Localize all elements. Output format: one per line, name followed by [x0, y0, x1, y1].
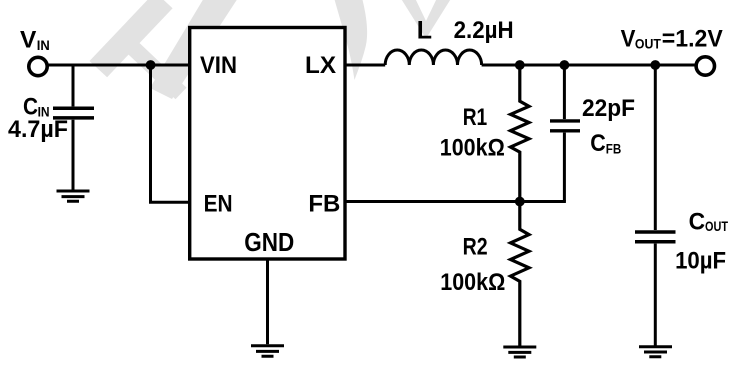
- capacitor CIN: [53, 108, 94, 118]
- svg-text:OUT: OUT: [635, 37, 662, 52]
- wire CIN branch: [72, 65, 75, 106]
- svg-text:C: C: [689, 208, 706, 235]
- svg-text:4.7µF: 4.7µF: [8, 116, 68, 143]
- ground COUT: [639, 347, 672, 357]
- pin VIN: [200, 52, 237, 79]
- svg-text:EN: EN: [204, 190, 233, 217]
- node VIN terminal: [29, 57, 47, 75]
- ground R2: [503, 347, 536, 357]
- svg-text:2.2µH: 2.2µH: [454, 17, 514, 44]
- pin LX: [305, 52, 337, 79]
- label VOUT=1.2V: [621, 25, 724, 52]
- inductor L1: [385, 50, 481, 65]
- label R1: [463, 104, 488, 131]
- svg-text:IN: IN: [37, 38, 50, 53]
- label CFB: [590, 130, 621, 157]
- watermark wedge V: [400, 0, 452, 39]
- wire input rail: [47, 64, 188, 67]
- svg-text:FB: FB: [606, 141, 622, 156]
- label R2 value 100k: [440, 269, 505, 296]
- wire COUT bottom: [654, 244, 657, 346]
- svg-text:V: V: [20, 27, 37, 54]
- pin EN: [204, 190, 233, 217]
- node COUT top junction: [650, 60, 660, 70]
- svg-text:22pF: 22pF: [582, 95, 635, 122]
- svg-text:C: C: [590, 130, 606, 157]
- wire CIN to ground: [72, 120, 75, 191]
- label R1 value 100k: [440, 135, 505, 162]
- svg-text:OUT: OUT: [705, 219, 729, 234]
- capacitor COUT: [635, 232, 676, 242]
- wire FB rail: [344, 200, 566, 203]
- wire output rail: [482, 64, 696, 67]
- svg-text:100kΩ: 100kΩ: [440, 269, 505, 296]
- label CIN: [23, 93, 50, 120]
- resistor R2: [511, 202, 530, 346]
- label COUT: [689, 208, 729, 235]
- pin GND: [244, 229, 294, 257]
- node EN junction: [146, 60, 156, 70]
- wire LX to inductor: [344, 64, 385, 67]
- node VOUT terminal: [696, 57, 714, 75]
- svg-text:FB: FB: [308, 190, 340, 217]
- svg-text:100kΩ: 100kΩ: [440, 135, 505, 162]
- wire GND pin: [266, 259, 269, 344]
- label CFB value 22pF: [582, 95, 635, 122]
- svg-text:GND: GND: [244, 229, 294, 257]
- svg-text:R1: R1: [463, 104, 488, 131]
- wire COUT top: [654, 65, 657, 230]
- label VIN terminal: [20, 27, 50, 54]
- label COUT value 10uF: [675, 248, 726, 275]
- pin FB: [308, 190, 340, 217]
- label CIN value 4.7uF: [8, 116, 68, 143]
- watermark arc O: [333, 0, 367, 80]
- svg-text:V: V: [621, 25, 636, 52]
- wire CFB top: [563, 65, 566, 119]
- svg-text:L: L: [417, 17, 432, 45]
- resistor R1: [511, 65, 530, 202]
- capacitor CFB: [550, 121, 580, 131]
- svg-text:R2: R2: [463, 234, 488, 261]
- ground IC: [251, 346, 284, 357]
- label L value 2.2uH: [454, 17, 514, 44]
- label L: [417, 17, 432, 45]
- svg-text:=1.2V: =1.2V: [662, 25, 724, 52]
- node FB junction: [515, 197, 525, 207]
- svg-text:VIN: VIN: [200, 52, 237, 79]
- node CFB top junction: [560, 60, 570, 70]
- watermark band T crossbar: [90, 0, 173, 77]
- watermark band T stem: [113, 28, 187, 99]
- IC regulator box: [190, 28, 345, 260]
- watermark band diagonal: [150, 0, 238, 99]
- svg-text:LX: LX: [305, 52, 337, 79]
- svg-text:10µF: 10µF: [675, 248, 726, 275]
- wire CFB bottom: [563, 133, 566, 202]
- ground CIN: [57, 191, 90, 201]
- label R2: [463, 234, 488, 261]
- node R1 top junction: [515, 60, 525, 70]
- wire EN branch: [151, 65, 189, 202]
